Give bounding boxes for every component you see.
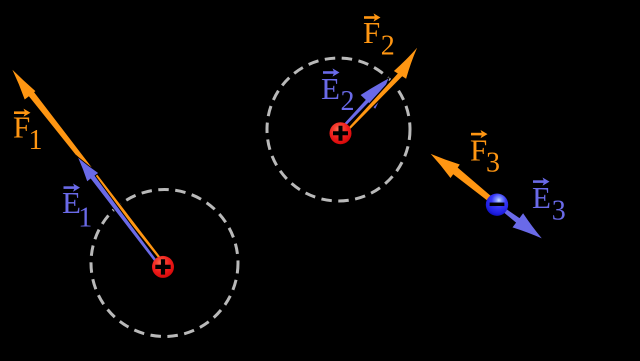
field vector E3 (blue arrow) — [496, 203, 542, 238]
positive charge q1 (red ball) — [152, 256, 174, 278]
force vector F3 (orange arrow) — [431, 154, 499, 207]
svg-text:2: 2 — [341, 86, 355, 117]
field vector E1 (blue arrow) — [78, 158, 162, 269]
label F2 — [363, 13, 395, 61]
svg-text:F: F — [470, 132, 487, 167]
label F1 — [13, 109, 43, 156]
label E3 — [532, 178, 566, 227]
svg-text:E: E — [532, 180, 551, 215]
dashed circle around charge q1 — [91, 190, 238, 337]
label E1 — [62, 184, 92, 234]
svg-text:3: 3 — [486, 148, 500, 179]
dashed circle around charge q2 — [267, 58, 410, 201]
negative charge q3 (blue ball) — [486, 194, 508, 216]
label F3 — [470, 130, 500, 179]
label E2 — [321, 68, 355, 117]
field vector E2 (blue arrow) — [339, 79, 388, 131]
positive charge q2 (red ball) — [330, 122, 352, 144]
svg-text:F: F — [363, 15, 380, 50]
svg-text:1: 1 — [29, 125, 43, 156]
svg-text:E: E — [321, 71, 340, 106]
force vector F2 (orange arrow) — [343, 48, 417, 135]
svg-text:2: 2 — [381, 30, 395, 61]
force vector F1 (orange arrow) — [12, 70, 166, 266]
svg-text:3: 3 — [552, 196, 566, 227]
svg-text:1: 1 — [78, 202, 92, 233]
